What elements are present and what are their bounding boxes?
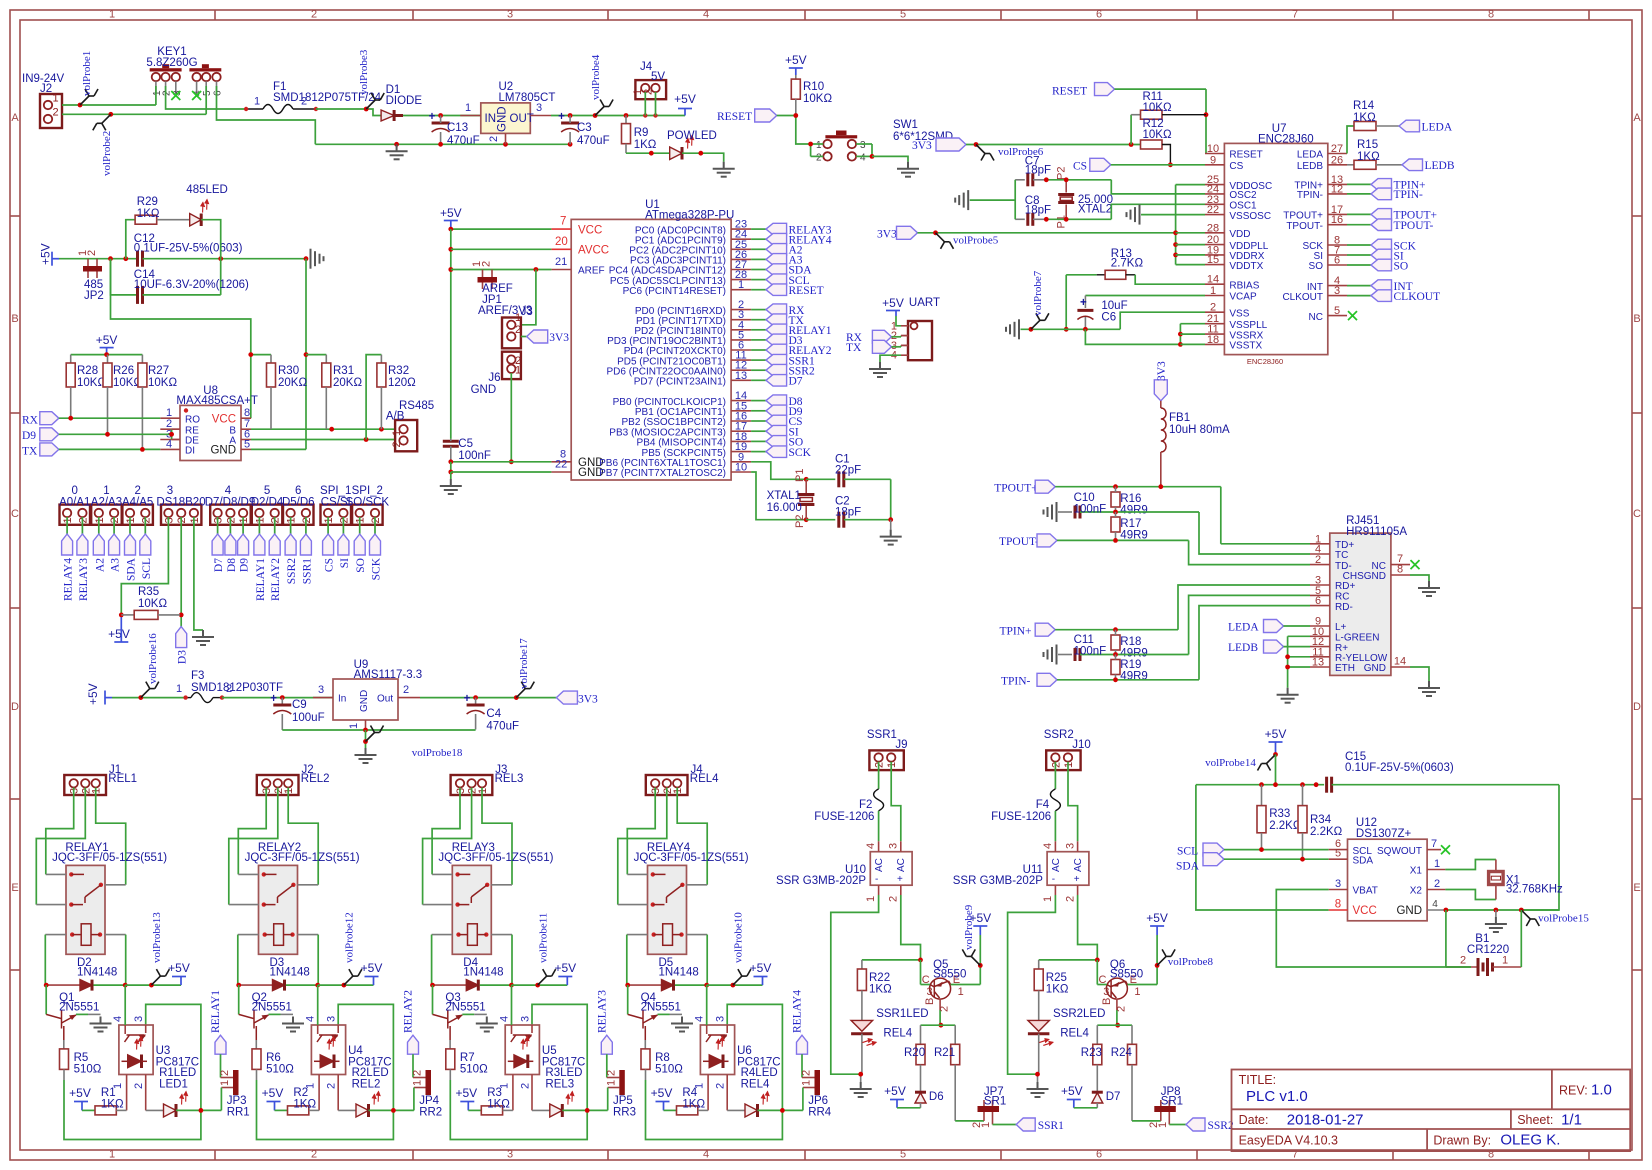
svg-text:2: 2: [412, 1070, 424, 1076]
svg-text:2: 2: [519, 1083, 531, 1089]
svg-text:3: 3: [69, 788, 81, 794]
svg-text:XTAL2: XTAL2: [1078, 204, 1112, 216]
svg-text:-: -: [1052, 874, 1055, 885]
svg-text:RX: RX: [22, 414, 39, 426]
wire CHSGND gnd: [1410, 575, 1429, 581]
net flag SDA rtc: [1176, 853, 1329, 873]
svg-text:JP5: JP5: [613, 1095, 633, 1107]
capacitor C7 18pF: [1015, 156, 1051, 187]
svg-text:10uH 80mA: 10uH 80mA: [1169, 424, 1230, 436]
svg-text:4: 4: [865, 843, 877, 849]
LED SSR1LED: [851, 1008, 929, 1074]
voltage regulator U2 LM7805CT: [460, 81, 555, 144]
svg-text:GND: GND: [1396, 905, 1422, 917]
power +5V R1: [69, 1086, 91, 1110]
LED REL4 indicator: [727, 1092, 803, 1117]
svg-text:2: 2: [1115, 1006, 1127, 1012]
ground RJ45 leds: [1277, 688, 1299, 703]
svg-text:VCC: VCC: [578, 224, 602, 236]
svg-text:F4: F4: [1036, 799, 1050, 811]
svg-text:2: 2: [1434, 878, 1440, 890]
svg-text:27: 27: [1331, 143, 1343, 155]
svg-text:10: 10: [735, 462, 747, 474]
svg-text:B: B: [924, 998, 936, 1005]
svg-text:1: 1: [109, 9, 115, 21]
svg-text:volProbe12: volProbe12: [344, 912, 356, 963]
svg-text:1: 1: [103, 485, 109, 497]
net flag SO enc: [1347, 259, 1408, 272]
svg-text:1: 1: [176, 683, 182, 695]
svg-text:C9: C9: [292, 699, 307, 711]
svg-text:1: 1: [254, 517, 266, 523]
svg-text:49R9: 49R9: [1120, 505, 1148, 517]
resistor R21: [934, 1044, 960, 1121]
svg-text:1: 1: [238, 517, 250, 523]
net flag SSR2 out: [1169, 1118, 1234, 1132]
svg-text:SO/SCK: SO/SCK: [346, 497, 390, 509]
power +5V R3: [455, 1086, 477, 1110]
svg-text:R35: R35: [138, 586, 159, 598]
wire R9 to POWLED: [626, 151, 670, 156]
svg-text:GND: GND: [471, 384, 497, 396]
svg-text:D: D: [1633, 701, 1641, 713]
pin U7 CLKOUT 3: [1282, 285, 1347, 303]
svg-text:CS: CS: [324, 558, 336, 572]
svg-text:100nF: 100nF: [1074, 504, 1107, 516]
wire J10.1 down: [1068, 762, 1078, 842]
pin U1 GND 22: [551, 459, 603, 480]
svg-text:TPOUT+: TPOUT+: [994, 483, 1038, 495]
transistor Q3 2N5551: [433, 985, 487, 1049]
svg-text:4: 4: [498, 1016, 510, 1022]
node volProbe14: [1205, 752, 1278, 770]
power +5V R10: [785, 53, 807, 75]
wire emitter +5V SSR1: [978, 935, 983, 985]
jumper JP4 RR2: [412, 1070, 443, 1119]
svg-text:2: 2: [605, 1070, 617, 1076]
svg-text:SSR2LED: SSR2LED: [1053, 1008, 1105, 1020]
wire D2row to +5V RELAY4: [707, 983, 763, 988]
wire led gnd SSR1: [858, 1072, 863, 1082]
svg-text:U6: U6: [737, 1045, 752, 1057]
svg-text:2.2KΩ: 2.2KΩ: [1310, 826, 1343, 838]
svg-text:E: E: [11, 882, 18, 894]
wire U9 gnd down: [363, 730, 368, 748]
svg-text:R26: R26: [113, 365, 134, 377]
resistor R8 510R: [641, 1049, 683, 1080]
svg-text:SSR2: SSR2: [1208, 1120, 1234, 1132]
capacitor C6 10uF: [1077, 296, 1205, 330]
svg-text:REL2: REL2: [352, 1079, 381, 1091]
wire crystal gnd: [888, 479, 893, 529]
svg-text:4: 4: [1042, 843, 1054, 849]
svg-text:ENC28J60: ENC28J60: [1258, 134, 1314, 146]
switch KEY1 5.8Z260G: [146, 46, 223, 96]
svg-text:+5V: +5V: [1061, 1084, 1083, 1098]
pin U1 PC0 23: [635, 219, 832, 237]
power +5V R2: [262, 1086, 284, 1110]
svg-text:C11: C11: [1074, 634, 1094, 646]
wire base loop RELAY3: [450, 1004, 587, 1139]
svg-text:AREF: AREF: [578, 266, 605, 277]
svg-text:PD7 (PCINT23AIN1): PD7 (PCINT23AIN1): [634, 377, 726, 388]
svg-text:+: +: [558, 111, 565, 123]
svg-text:26: 26: [1331, 154, 1343, 166]
svg-text:1: 1: [109, 1149, 115, 1161]
svg-text:1KΩ: 1KΩ: [634, 139, 657, 151]
svg-text:C6: C6: [1101, 312, 1116, 324]
svg-text:SR1: SR1: [984, 1096, 1006, 1108]
svg-text:LEDA: LEDA: [1297, 150, 1323, 161]
svg-text:C4: C4: [486, 708, 501, 720]
svg-text:2: 2: [133, 1083, 145, 1089]
pin U7 NC 5: [1309, 305, 1347, 323]
net flag SSR1 out: [993, 1118, 1065, 1132]
svg-text:J9: J9: [895, 739, 907, 751]
transistor Q5 S8550: [921, 959, 981, 1025]
wire pullup rail: [71, 352, 143, 357]
pin U7 TPOUT+ 17: [1283, 204, 1347, 222]
svg-text:1: 1: [125, 517, 137, 523]
connector header A0/A1: [59, 485, 90, 601]
svg-text:4: 4: [860, 153, 866, 164]
wire J1.2 to NC: [36, 788, 85, 905]
diode D6: [915, 1085, 944, 1108]
svg-text:+5V: +5V: [651, 1086, 673, 1100]
svg-text:C10: C10: [1074, 492, 1095, 504]
resistor R19 49R9: [1111, 655, 1148, 683]
svg-text:0.1UF-25V-5%(0603): 0.1UF-25V-5%(0603): [1345, 762, 1454, 774]
ground crystal: [880, 530, 902, 545]
pin U7 VSSTX 18: [1205, 334, 1263, 352]
svg-text:+5V: +5V: [168, 961, 190, 975]
svg-text:SSR G3MB-202P: SSR G3MB-202P: [953, 875, 1043, 887]
svg-text:OLEG K.: OLEG K.: [1500, 1132, 1560, 1149]
svg-text:16.000: 16.000: [767, 502, 802, 514]
wire D1 to U2.IN: [403, 113, 481, 118]
svg-text:R31: R31: [333, 365, 354, 377]
svg-text:CS: CS: [1073, 161, 1087, 173]
svg-text:R15: R15: [1357, 139, 1378, 151]
IC U12 DS1307Z+: [1329, 817, 1446, 921]
svg-text:22: 22: [555, 459, 567, 471]
capacitor C3 470uF: [558, 111, 610, 147]
connector RS485 A/B: [386, 400, 434, 451]
node volProbe5: [936, 233, 999, 249]
svg-text:1N4148: 1N4148: [270, 967, 310, 979]
svg-text:REL3: REL3: [495, 773, 524, 785]
svg-text:1: 1: [816, 140, 822, 151]
svg-text:A4/A5: A4/A5: [122, 497, 153, 509]
svg-text:6: 6: [213, 90, 224, 96]
wire +5V rail 485: [59, 256, 138, 261]
diode D3 1N4148: [236, 957, 320, 991]
svg-text:SDA: SDA: [1176, 861, 1200, 873]
svg-text:4: 4: [1432, 899, 1438, 910]
svg-text:D7/D8/D9: D7/D8/D9: [205, 497, 256, 509]
svg-text:REV:: REV:: [1559, 1084, 1588, 1098]
LED SSR2LED: [1028, 1008, 1106, 1074]
wire D2row to +5V RELAY1: [125, 983, 181, 988]
wire R13 to gnd rail: [1064, 275, 1069, 332]
svg-text:2: 2: [77, 517, 89, 523]
svg-text:3V3: 3V3: [549, 332, 569, 344]
svg-text:1: 1: [886, 762, 898, 768]
net flag TPOUT- enc: [1347, 219, 1433, 232]
power +5V RELAY4: [750, 961, 772, 985]
ground emitter Q2: [282, 1017, 304, 1032]
svg-text:18pF: 18pF: [1025, 165, 1051, 177]
ground U1: [440, 479, 462, 494]
wire J3.1 to NO: [482, 788, 512, 885]
svg-text:49R9: 49R9: [1120, 648, 1148, 660]
svg-text:2N5551: 2N5551: [252, 1002, 292, 1014]
net flag RELAY4: [792, 990, 808, 1078]
optocoupler U4 PC817C: [305, 985, 392, 1110]
svg-text:+: +: [270, 693, 277, 705]
svg-text:B: B: [1101, 998, 1113, 1005]
svg-text:5V: 5V: [651, 71, 665, 83]
svg-text:RELAY1: RELAY1: [255, 558, 267, 601]
svg-text:volProbe15: volProbe15: [1538, 913, 1589, 925]
svg-text:1: 1: [1063, 762, 1075, 768]
labels R1LED LED1: [159, 1067, 196, 1091]
svg-text:volProbe13: volProbe13: [151, 912, 163, 963]
svg-text:20: 20: [555, 236, 568, 248]
wire +5V to F3: [112, 695, 186, 700]
wire C12 right gnd rail: [218, 256, 308, 261]
wire RESET to SW1: [793, 113, 810, 144]
svg-text:2N5551: 2N5551: [641, 1002, 681, 1014]
svg-text:R5: R5: [74, 1052, 89, 1064]
wire J4 pins down: [645, 92, 655, 116]
svg-text:LEDB: LEDB: [1297, 161, 1323, 172]
jumper JP2 485: [77, 250, 104, 302]
svg-text:3: 3: [888, 843, 900, 849]
svg-text:AC: AC: [1073, 858, 1084, 872]
svg-text:R18: R18: [1120, 636, 1141, 648]
svg-text:CLKOUT: CLKOUT: [1282, 292, 1323, 303]
svg-text:2: 2: [515, 324, 521, 336]
power +5V 485 rail: [39, 243, 60, 265]
svg-text:RESET: RESET: [717, 111, 752, 123]
net flag TPIN+ left: [1000, 623, 1179, 637]
svg-text:D7: D7: [789, 376, 803, 388]
pin U7 OSC2 24: [1205, 183, 1257, 201]
svg-text:D7: D7: [1106, 1091, 1121, 1103]
connector header D7/D8/D9: [205, 485, 256, 572]
svg-text:A2: A2: [94, 558, 106, 572]
svg-text:SSR G3MB-202P: SSR G3MB-202P: [776, 875, 866, 887]
svg-text:+: +: [1080, 297, 1087, 309]
wire B row: [251, 427, 395, 432]
svg-text:SSR1: SSR1: [1038, 1120, 1064, 1132]
svg-text:2: 2: [874, 762, 886, 768]
svg-text:volProbe7: volProbe7: [1032, 270, 1044, 316]
node volProbe13: [151, 912, 169, 985]
svg-text:AC: AC: [874, 858, 885, 872]
svg-text:RELAY1: RELAY1: [210, 990, 222, 1033]
svg-text:TPIN-: TPIN-: [1394, 189, 1424, 201]
node volProbe3: [358, 49, 384, 111]
svg-text:R1LED: R1LED: [159, 1067, 196, 1079]
svg-text:5: 5: [1334, 305, 1340, 317]
svg-text:3V3: 3V3: [578, 694, 598, 706]
wire OSC2 net: [1044, 177, 1205, 193]
svg-text:2: 2: [488, 136, 500, 142]
svg-text:5: 5: [900, 1149, 906, 1161]
svg-text:1N4148: 1N4148: [463, 967, 503, 979]
relay RELAY2 JQC-3FF/05-1ZS(551): [229, 842, 360, 954]
pin U7 INT 4: [1307, 275, 1347, 293]
pin U1 PD1 3: [636, 309, 805, 327]
svg-text:3: 3: [1334, 285, 1340, 297]
svg-text:RELAY3: RELAY3: [596, 990, 608, 1033]
svg-text:VDDTX: VDDTX: [1229, 261, 1263, 272]
svg-text:SI: SI: [339, 558, 351, 568]
svg-text:RESET: RESET: [1052, 86, 1087, 98]
svg-text:+5V: +5V: [554, 961, 576, 975]
svg-text:3: 3: [261, 788, 273, 794]
svg-text:JP3: JP3: [227, 1095, 247, 1107]
svg-text:5: 5: [264, 485, 270, 497]
svg-text:5.8Z260G: 5.8Z260G: [146, 57, 197, 69]
wire DS18B20.1 to gnd: [194, 517, 203, 630]
svg-text:2: 2: [1064, 896, 1076, 902]
svg-text:3: 3: [650, 788, 662, 794]
svg-text:470uF: 470uF: [447, 135, 480, 147]
connector J9 SSR1: [867, 729, 908, 770]
svg-text:1: 1: [62, 517, 74, 523]
svg-text:R4LED: R4LED: [741, 1067, 778, 1079]
wire F3 to U9.In: [222, 695, 333, 700]
pin U7 VSS 2: [1205, 302, 1250, 320]
svg-text:CHSGND: CHSGND: [1343, 571, 1386, 582]
svg-text:RR3: RR3: [613, 1107, 636, 1119]
svg-text:F3: F3: [191, 670, 204, 682]
svg-text:Out: Out: [377, 694, 393, 705]
svg-text:4: 4: [112, 1016, 124, 1022]
connector header DS18B20: [156, 485, 205, 525]
svg-text:3: 3: [519, 1016, 531, 1022]
wire coil left RELAY1: [44, 935, 46, 986]
svg-text:470uF: 470uF: [577, 135, 610, 147]
pin U1 AVCC 20: [551, 236, 609, 257]
svg-text:1: 1: [391, 430, 403, 436]
pin U1 PD2 4: [634, 319, 831, 337]
resistor R22 1K: [857, 960, 892, 1021]
wire R24 to JP8: [1132, 1120, 1161, 1122]
wire U8 GND row: [251, 448, 306, 450]
wire battery left: [1446, 966, 1471, 968]
svg-text:RR1: RR1: [227, 1107, 250, 1119]
svg-text:SQWOUT: SQWOUT: [1377, 846, 1422, 857]
resistor R30 20K: [267, 355, 308, 430]
net flag RELAY1: [210, 990, 226, 1078]
svg-text:2: 2: [270, 517, 282, 523]
svg-text:RD-: RD-: [1335, 602, 1353, 613]
svg-text:21: 21: [555, 256, 567, 268]
svg-text:1/1: 1/1: [1561, 1112, 1582, 1129]
svg-text:1N4148: 1N4148: [77, 967, 117, 979]
svg-text:ETH: ETH: [1335, 663, 1355, 674]
net flag SI enc: [1347, 249, 1404, 262]
svg-text:2: 2: [1315, 554, 1321, 566]
svg-text:R32: R32: [388, 365, 409, 377]
svg-text:R4: R4: [682, 1087, 697, 1099]
svg-text:REL4: REL4: [741, 1079, 770, 1091]
resistor R20: [904, 1044, 925, 1085]
net flag LEDB: [1402, 159, 1455, 172]
svg-text:20KΩ: 20KΩ: [278, 377, 307, 389]
capacitor C11 100nF: [1044, 634, 1189, 665]
svg-text:OUT: OUT: [510, 113, 534, 125]
svg-text:J10: J10: [1072, 739, 1091, 751]
svg-text:1: 1: [1434, 858, 1440, 870]
svg-text:16: 16: [1331, 214, 1343, 226]
pin U7 OSC1 23: [1205, 194, 1257, 212]
svg-text:REL1: REL1: [108, 773, 137, 785]
wire J2.1 to NO: [288, 788, 318, 885]
svg-text:volProbe9: volProbe9: [963, 904, 975, 950]
svg-text:TPOUT-: TPOUT-: [1394, 220, 1434, 232]
svg-text:2N5551: 2N5551: [445, 1002, 485, 1014]
resistor R10 10K: [791, 75, 832, 116]
svg-text:D3: D3: [177, 650, 189, 664]
svg-text:EasyEDA V4.10.3: EasyEDA V4.10.3: [1239, 1134, 1338, 1148]
svg-text:1: 1: [515, 365, 521, 377]
svg-text:1KΩ: 1KΩ: [293, 1099, 316, 1111]
wire POWLED to gnd: [682, 151, 724, 162]
fuse F4 FUSE-1206: [991, 762, 1060, 842]
svg-text:R29: R29: [137, 196, 158, 208]
svg-text:FUSE-1206: FUSE-1206: [991, 811, 1051, 823]
node volProbe10: [733, 912, 751, 985]
svg-text:485LED: 485LED: [186, 184, 228, 196]
svg-text:2: 2: [403, 684, 409, 696]
wire RD- rise: [1199, 606, 1310, 680]
svg-text:R34: R34: [1310, 814, 1332, 826]
IC U1 ATmega328P-PU: [571, 199, 734, 480]
svg-text:volProbe5: volProbe5: [953, 235, 999, 247]
node volProbe8: [1157, 949, 1213, 968]
svg-text:TX: TX: [846, 342, 862, 354]
svg-text:+: +: [429, 111, 436, 123]
connector UART J5: [891, 320, 932, 361]
svg-text:+5V: +5V: [455, 1086, 477, 1100]
svg-text:S8550: S8550: [1110, 969, 1143, 981]
svg-text:D9: D9: [239, 558, 251, 572]
node volProbe15: [1521, 910, 1589, 926]
svg-text:SO: SO: [1309, 261, 1324, 272]
svg-text:22pF: 22pF: [835, 465, 861, 477]
relay RELAY3 JQC-3FF/05-1ZS(551): [423, 842, 554, 954]
svg-text:1N4148: 1N4148: [659, 967, 699, 979]
wire U1 gnd rows: [448, 459, 551, 479]
svg-text:X1: X1: [1410, 866, 1423, 877]
svg-text:RO: RO: [185, 414, 200, 425]
svg-text:LEDB: LEDB: [1228, 642, 1258, 654]
net flag 3V3 fb1: [1154, 361, 1168, 401]
net flag RESET: [717, 109, 796, 123]
wire J4.1 to NO: [677, 788, 707, 885]
svg-text:HR911105A: HR911105A: [1346, 526, 1407, 538]
svg-text:18pF: 18pF: [1025, 205, 1051, 217]
resistor R13 2.7K: [1066, 248, 1205, 284]
svg-text:+: +: [1074, 874, 1080, 885]
svg-text:2: 2: [53, 107, 59, 119]
svg-text:1KΩ: 1KΩ: [1357, 151, 1380, 163]
